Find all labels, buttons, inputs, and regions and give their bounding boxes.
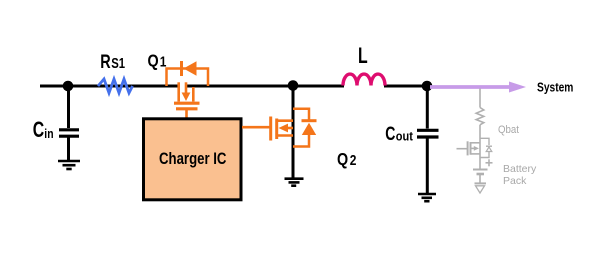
svg-text:Pack: Pack xyxy=(503,175,527,187)
svg-text:Battery: Battery xyxy=(503,163,537,175)
svg-text:R: R xyxy=(100,51,110,72)
IC U1 Charger IC box xyxy=(144,119,242,200)
ground Q2 xyxy=(285,179,304,186)
svg-text:Charger IC: Charger IC xyxy=(159,150,227,169)
capacitor Cin xyxy=(59,130,79,160)
svg-text:C: C xyxy=(33,119,45,143)
diode Dbat loop xyxy=(480,138,489,145)
svg-text:2: 2 xyxy=(350,152,357,169)
diode Dbat triangle xyxy=(486,147,492,152)
capacitor Cout xyxy=(417,130,439,193)
inductor L xyxy=(343,74,385,85)
battery plus sign xyxy=(486,159,493,166)
svg-text:Qbat: Qbat xyxy=(498,124,519,136)
diode D2 triangle xyxy=(302,123,316,135)
transistor Q2 MOSFET xyxy=(271,117,293,141)
diode D2 cathode bar xyxy=(302,119,317,122)
wire Cin branch xyxy=(67,86,70,128)
ground battery (arrow style) xyxy=(475,182,487,184)
resistor RS1 xyxy=(98,79,133,93)
wire battery to ground xyxy=(479,174,481,183)
svg-text:1: 1 xyxy=(160,53,167,70)
wire rail Q1-to-inductor segment xyxy=(186,85,344,88)
transistor Qbat body arrow xyxy=(474,146,479,151)
wire Q1 gate to IC xyxy=(185,109,188,119)
svg-text:L: L xyxy=(358,45,368,69)
svg-text:out: out xyxy=(396,130,413,144)
diode D2 loop xyxy=(293,109,309,121)
node output junction xyxy=(422,81,433,92)
svg-text:C: C xyxy=(385,123,395,145)
wire battery branch top xyxy=(479,89,481,108)
svg-text:S1: S1 xyxy=(111,55,125,72)
wire inductor-to-output segment xyxy=(384,85,428,88)
ground Cout xyxy=(418,194,436,201)
transistor Q1 body-diode loop xyxy=(167,69,209,87)
wire IC to Q2 gate xyxy=(242,126,270,129)
diode Dbat cathode bar xyxy=(486,145,492,147)
wire input rail left segment xyxy=(40,85,179,88)
svg-text:System: System xyxy=(537,79,573,95)
resistor battery sense xyxy=(476,108,484,125)
svg-text:Q: Q xyxy=(337,151,348,170)
transistor Q1 body arrow xyxy=(182,93,191,102)
node input junction xyxy=(63,81,74,92)
diode D1 triangle xyxy=(184,61,197,75)
svg-text:in: in xyxy=(44,127,53,141)
transistor Q2 body arrow xyxy=(279,124,289,133)
node switch junction xyxy=(288,80,299,91)
wire Cout branch xyxy=(426,86,429,129)
battery cell plates xyxy=(473,169,488,171)
ground Cin xyxy=(58,161,80,169)
wire System arrow xyxy=(430,85,510,89)
wire battery branch middle xyxy=(479,125,481,170)
wire switch-node branch xyxy=(292,86,295,178)
transistor Q1 MOSFET xyxy=(174,82,200,109)
diode D1 cathode bar xyxy=(180,61,183,76)
svg-text:Q: Q xyxy=(148,52,159,71)
transistor Qbat MOSFET xyxy=(457,141,481,155)
